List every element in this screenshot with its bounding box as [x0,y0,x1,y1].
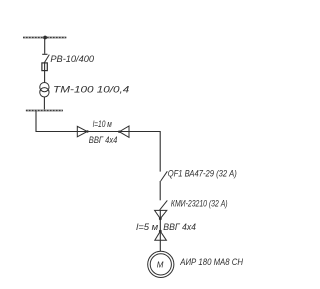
svg-text:ТМ-100 10/0,4: ТМ-100 10/0,4 [53,85,129,96]
svg-text:QF1 ВА47-29 (32 А): QF1 ВА47-29 (32 А) [168,168,237,179]
svg-text:КМИ-23210 (32 А): КМИ-23210 (32 А) [171,198,228,209]
svg-text:ВВГ 4х4: ВВГ 4х4 [89,135,118,146]
svg-text:l=10 м: l=10 м [93,119,112,130]
svg-text:l=5 м: l=5 м [136,222,159,233]
svg-text:АИР 180 МА8 СН: АИР 180 МА8 СН [179,257,243,268]
svg-text:М: М [157,260,164,269]
svg-text:ВВГ 4х4: ВВГ 4х4 [163,222,196,233]
svg-text:РВ-10/400: РВ-10/400 [50,54,94,65]
